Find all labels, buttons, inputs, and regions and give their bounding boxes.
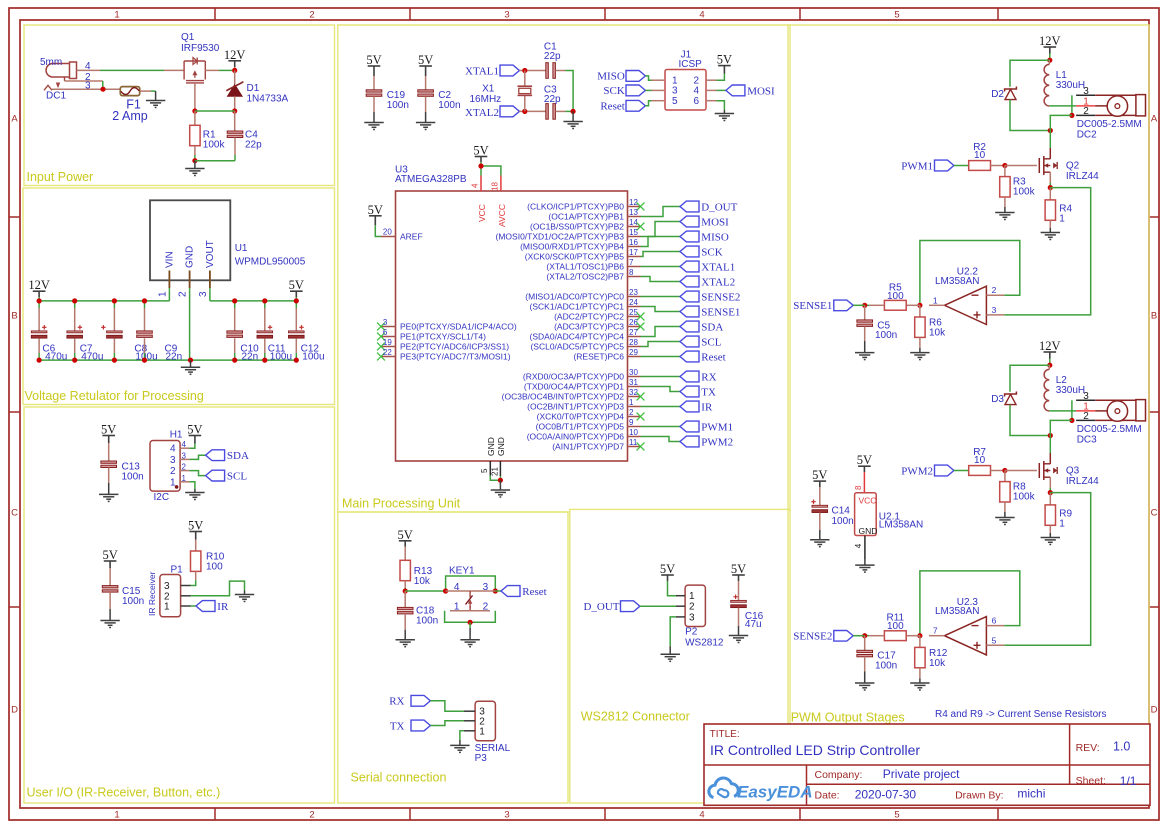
svg-text:PWM Output Stages: PWM Output Stages [791,710,905,724]
svg-text:TITLE:: TITLE: [710,729,740,740]
svg-text:SCL: SCL [227,471,247,483]
svg-text:Q1: Q1 [181,32,195,43]
svg-text:SCK: SCK [701,246,722,258]
svg-text:DC005-2.5MM: DC005-2.5MM [1077,424,1142,435]
svg-text:3: 3 [1083,391,1089,402]
svg-text:4: 4 [699,810,704,821]
svg-text:(ADC2/PTCY)PC2: (ADC2/PTCY)PC2 [554,312,624,322]
svg-text:15: 15 [629,228,638,237]
svg-text:2: 2 [483,602,489,613]
svg-text:2: 2 [309,10,314,21]
svg-text:4: 4 [85,61,91,72]
svg-text:1.0: 1.0 [1113,739,1130,753]
svg-text:RX: RX [389,696,404,708]
svg-text:REV:: REV: [1076,742,1100,754]
svg-text:ICSP: ICSP [679,59,703,70]
svg-text:Reset: Reset [701,351,725,363]
svg-text:22p: 22p [245,140,262,151]
svg-text:Serial connection: Serial connection [351,771,447,785]
svg-text:10: 10 [974,455,986,466]
svg-text:100: 100 [887,621,904,632]
svg-text:Drawn By:: Drawn By: [955,790,1003,802]
svg-text:(XCK0/T0/PTCXY)PD4: (XCK0/T0/PTCXY)PD4 [537,412,625,422]
svg-text:AREF: AREF [400,232,423,242]
svg-text:SCL: SCL [701,336,721,348]
svg-text:C: C [1151,508,1158,519]
svg-text:DC2: DC2 [1077,129,1097,140]
svg-text:XTAL1: XTAL1 [701,261,735,273]
svg-text:1: 1 [114,10,119,21]
svg-text:D: D [1151,705,1158,716]
svg-text:B: B [11,311,17,322]
svg-text:4: 4 [699,10,704,21]
svg-text:2: 2 [178,291,189,297]
svg-text:20: 20 [383,228,392,237]
svg-text:5V: 5V [660,562,675,576]
svg-text:10k: 10k [414,576,431,587]
svg-text:100u: 100u [270,352,292,363]
svg-text:10: 10 [974,150,986,161]
svg-text:IR Controlled LED Strip Contro: IR Controlled LED Strip Controller [710,742,920,758]
svg-text:2: 2 [309,810,314,821]
svg-text:2020-07-30: 2020-07-30 [855,787,917,801]
svg-text:12V: 12V [224,48,246,62]
svg-text:5V: 5V [473,144,488,158]
svg-text:1: 1 [629,398,634,407]
svg-text:2: 2 [629,408,634,417]
svg-text:VOUT: VOUT [205,240,216,268]
svg-text:(MISO0/RXD1/PTCXY)PB4: (MISO0/RXD1/PTCXY)PB4 [520,242,624,252]
svg-text:IRF9530: IRF9530 [181,43,220,54]
svg-text:Company:: Company: [815,769,863,781]
svg-text:(OC1B/SS0/PTCXY)PB2: (OC1B/SS0/PTCXY)PB2 [530,222,624,232]
svg-text:1: 1 [1059,213,1065,224]
svg-text:EasyEDA: EasyEDA [737,783,813,802]
svg-text:100u: 100u [302,352,324,363]
svg-text:SENSE2: SENSE2 [701,291,740,303]
svg-text:5: 5 [992,635,997,645]
svg-text:(OC3B/OC4B/INT0/PTCXY)PD2: (OC3B/OC4B/INT0/PTCXY)PD2 [502,392,625,402]
svg-text:Voltage Retulator for Processi: Voltage Retulator for Processing [25,389,204,403]
svg-text:(OC0B/T1/PTCXY)PD5: (OC0B/T1/PTCXY)PD5 [536,422,625,432]
svg-text:5mm: 5mm [40,57,62,68]
svg-text:12V: 12V [1039,339,1061,353]
svg-text:22n: 22n [242,352,259,363]
svg-text:2: 2 [1083,411,1089,422]
svg-text:5: 5 [480,468,489,473]
svg-text:(OC1A/PTCXY)PB1: (OC1A/PTCXY)PB1 [548,212,624,222]
svg-text:5V: 5V [398,528,413,542]
svg-text:P1: P1 [171,565,184,576]
svg-text:8: 8 [629,268,634,277]
svg-text:LM358AN: LM358AN [935,606,979,617]
svg-text:XTAL2: XTAL2 [701,276,735,288]
svg-text:KEY1: KEY1 [449,566,475,577]
svg-text:(OC0A/AIN0/PTCXY)PD6: (OC0A/AIN0/PTCXY)PD6 [527,432,625,442]
svg-text:B: B [1151,311,1157,322]
svg-text:23: 23 [629,288,638,297]
svg-text:Main Processing Unit: Main Processing Unit [342,497,461,511]
svg-text:Sheet:: Sheet: [1076,775,1106,787]
svg-text:(SDA0/ADC4/PTCY)PC4: (SDA0/ADC4/PTCY)PC4 [530,332,625,342]
svg-text:2: 2 [992,285,997,295]
svg-text:1: 1 [454,602,460,613]
svg-text:100: 100 [887,291,904,302]
svg-text:3: 3 [85,81,91,92]
svg-text:3: 3 [992,305,997,315]
svg-text:9: 9 [629,418,634,427]
svg-text:PWM2: PWM2 [701,436,733,448]
svg-text:Date:: Date: [815,789,840,801]
svg-text:100n: 100n [875,660,897,671]
svg-text:5V: 5V [187,423,202,437]
svg-text:TX: TX [390,720,405,732]
svg-text:4: 4 [170,444,176,455]
svg-text:4: 4 [470,183,479,188]
svg-text:DC3: DC3 [1077,434,1097,445]
svg-text:Private project: Private project [883,767,960,781]
svg-text:5V: 5V [102,548,117,562]
svg-text:16: 16 [629,238,638,247]
svg-text:(MISO1/ADC0/PTCY)PC0: (MISO1/ADC0/PTCY)PC0 [525,292,624,302]
svg-text:100n: 100n [875,330,897,341]
svg-text:5V: 5V [418,53,433,67]
svg-text:31: 31 [629,378,638,387]
svg-text:1: 1 [170,477,176,488]
svg-text:R4 and R9 -> Current Sense Res: R4 and R9 -> Current Sense Resistors [935,709,1106,720]
svg-text:3: 3 [504,810,509,821]
svg-text:2 Amp: 2 Amp [112,109,147,123]
svg-text:1: 1 [164,602,170,613]
svg-text:ATMEGA328PB: ATMEGA328PB [395,174,467,185]
svg-text:1/1: 1/1 [1120,774,1137,788]
svg-text:(SCL0/ADC5/PTCY)PC5: (SCL0/ADC5/PTCY)PC5 [530,342,624,352]
svg-text:5V: 5V [289,278,304,292]
svg-text:100k: 100k [1013,491,1036,502]
svg-text:P3: P3 [475,753,488,764]
svg-text:(ADC3/PTCY)PC3: (ADC3/PTCY)PC3 [554,322,624,332]
svg-text:MISO: MISO [597,71,625,83]
svg-text:5V: 5V [368,203,383,217]
svg-text:29: 29 [629,348,638,357]
svg-text:22: 22 [383,348,392,357]
svg-text:VCC: VCC [859,495,877,505]
svg-text:GND: GND [496,437,506,456]
svg-text:PE0(PTCXY/SDA1/ICP4/ACO): PE0(PTCXY/SDA1/ICP4/ACO) [400,322,517,332]
svg-text:1: 1 [933,295,938,305]
svg-text:1N4733A: 1N4733A [247,94,289,105]
svg-text:(MOSI0/TXD1/OC2A/PTCXY)PB3: (MOSI0/TXD1/OC2A/PTCXY)PB3 [496,232,625,242]
svg-text:100k: 100k [203,140,226,151]
svg-text:LM358AN: LM358AN [935,276,979,287]
svg-text:WPMDL950005: WPMDL950005 [235,257,306,268]
svg-text:SENSE1: SENSE1 [793,300,832,312]
svg-text:VIN: VIN [164,251,175,268]
svg-text:GND: GND [486,437,496,456]
svg-text:IRLZ44: IRLZ44 [1066,476,1099,487]
svg-text:13: 13 [629,208,638,217]
svg-text:5V: 5V [857,453,872,467]
svg-text:3: 3 [1083,86,1089,97]
svg-text:MOSI: MOSI [747,85,775,97]
svg-text:4: 4 [854,543,863,548]
svg-text:1: 1 [182,474,187,483]
svg-text:1: 1 [479,726,485,737]
svg-text:SENSE1: SENSE1 [701,306,740,318]
svg-text:AVCC: AVCC [497,204,507,227]
svg-text:Reset: Reset [522,586,546,598]
svg-text:VCC: VCC [477,204,487,222]
svg-text:5V: 5V [101,423,116,437]
svg-text:3: 3 [504,10,509,21]
svg-text:PWM2: PWM2 [901,465,933,477]
svg-text:2: 2 [689,602,695,613]
svg-text:3: 3 [383,318,388,327]
svg-text:100n: 100n [438,100,460,111]
svg-text:17: 17 [629,248,638,257]
svg-text:DC1: DC1 [46,91,66,102]
svg-text:D_OUT: D_OUT [583,601,619,613]
svg-text:(SCK1/ADC1/PTCY)PC1: (SCK1/ADC1/PTCY)PC1 [530,302,625,312]
svg-text:3: 3 [483,582,489,593]
svg-text:D_OUT: D_OUT [701,201,737,213]
svg-text:19: 19 [383,338,392,347]
svg-text:PWM1: PWM1 [901,160,933,172]
svg-text:C: C [11,508,18,519]
svg-text:1: 1 [689,591,695,602]
svg-text:22n: 22n [166,352,183,363]
svg-text:D: D [11,705,18,716]
svg-text:6: 6 [992,616,997,626]
svg-text:7: 7 [629,258,634,267]
svg-text:3: 3 [198,291,209,297]
svg-text:47u: 47u [745,619,762,630]
svg-text:WS2812 Connector: WS2812 Connector [581,710,690,724]
svg-text:3: 3 [182,451,187,460]
svg-text:(RXD0/OC3A/PTCXY)PD0: (RXD0/OC3A/PTCXY)PD0 [523,372,624,382]
svg-text:SDA: SDA [227,450,249,462]
svg-text:IRLZ44: IRLZ44 [1066,171,1099,182]
svg-text:PE3(PTCY/ADC7/T3/MOSI1): PE3(PTCY/ADC7/T3/MOSI1) [400,352,511,362]
svg-text:MISO: MISO [701,231,729,243]
svg-text:6: 6 [694,96,700,107]
svg-text:24: 24 [629,298,638,307]
svg-text:PE1(PTCXY/SCL1/T4): PE1(PTCXY/SCL1/T4) [400,332,486,342]
svg-text:5V: 5V [731,562,746,576]
svg-text:MOSI: MOSI [701,216,729,228]
svg-text:5: 5 [672,96,678,107]
svg-text:1: 1 [114,810,119,821]
svg-text:10k: 10k [929,658,946,669]
svg-text:100k: 100k [1013,186,1036,197]
svg-text:C14: C14 [832,505,851,516]
svg-text:LM358AN: LM358AN [879,520,923,531]
svg-text:12V: 12V [28,278,50,292]
svg-text:WS2812: WS2812 [685,637,724,648]
svg-text:(OC2B/INT1/PTCXY)PD3: (OC2B/INT1/PTCXY)PD3 [527,402,624,412]
svg-text:IR: IR [217,601,229,613]
svg-text:D3: D3 [991,394,1004,405]
svg-text:TX: TX [701,386,716,398]
svg-text:GND: GND [185,246,196,268]
svg-text:XTAL1: XTAL1 [465,66,499,78]
svg-text:2: 2 [170,466,176,477]
svg-text:100n: 100n [122,472,144,483]
svg-text:100n: 100n [122,596,144,607]
svg-text:I2C: I2C [154,492,170,503]
svg-text:3: 3 [689,612,695,623]
svg-text:Reset: Reset [600,101,624,113]
svg-text:(XCK0/SCK0/PTCXY)PB5: (XCK0/SCK0/PTCXY)PB5 [525,252,624,262]
svg-text:IR Receiver: IR Receiver [147,571,157,616]
svg-text:18: 18 [490,182,499,191]
svg-text:5: 5 [894,810,899,821]
svg-text:(CLKO/ICP1/PTCXY)PB0: (CLKO/ICP1/PTCXY)PB0 [527,202,624,212]
svg-text:10: 10 [629,428,638,437]
svg-text:5V: 5V [366,53,381,67]
svg-text:User I/O (IR-Receiver, Button,: User I/O (IR-Receiver, Button, etc.) [27,786,221,800]
svg-text:(XTAL2/TOSC2)PB7: (XTAL2/TOSC2)PB7 [546,272,624,282]
svg-text:(XTAL1/TOSC1)PB6: (XTAL1/TOSC1)PB6 [546,262,624,272]
svg-text:100n: 100n [832,516,854,527]
svg-text:5V: 5V [812,468,827,482]
svg-text:22p: 22p [544,51,561,62]
svg-text:RX: RX [701,371,716,383]
svg-text:330uH: 330uH [1056,385,1085,396]
svg-text:SCK: SCK [603,85,624,97]
svg-text:2: 2 [182,463,187,472]
svg-text:100: 100 [206,562,223,573]
svg-text:4: 4 [454,582,460,593]
svg-text:10k: 10k [929,328,946,339]
svg-text:(RESET)PC6: (RESET)PC6 [573,352,624,362]
svg-text:16MHz: 16MHz [470,94,502,105]
svg-text:27: 27 [629,328,638,337]
svg-text:100n: 100n [387,100,409,111]
svg-text:PWM1: PWM1 [701,421,733,433]
svg-text:1: 1 [1059,518,1065,529]
svg-text:D2: D2 [991,89,1004,100]
svg-text:8: 8 [854,485,863,490]
svg-text:GND: GND [859,526,878,536]
svg-text:A: A [11,114,18,125]
svg-text:Input Power: Input Power [27,170,94,184]
svg-text:100n: 100n [416,616,438,627]
svg-text:P2: P2 [685,627,698,638]
svg-text:30: 30 [629,368,638,377]
svg-text:12V: 12V [1039,34,1061,48]
svg-text:U1: U1 [235,243,248,254]
svg-text:5V: 5V [717,53,732,67]
svg-text:22p: 22p [544,94,561,105]
svg-text:1: 1 [157,291,168,297]
svg-text:5V: 5V [188,519,203,533]
svg-text:michi: michi [1017,787,1045,801]
svg-text:6: 6 [383,328,388,337]
svg-text:5: 5 [894,10,899,21]
svg-text:4: 4 [182,440,187,449]
svg-text:XTAL2: XTAL2 [465,107,499,119]
svg-text:7: 7 [933,626,938,636]
svg-text:3: 3 [170,455,176,466]
svg-text:470u: 470u [81,352,103,363]
svg-text:28: 28 [629,338,638,347]
svg-text:470u: 470u [45,352,67,363]
svg-text:IR: IR [701,401,713,413]
svg-text:DC005-2.5MM: DC005-2.5MM [1077,119,1142,130]
svg-text:SENSE2: SENSE2 [793,631,832,643]
svg-text:H1: H1 [170,430,183,441]
svg-text:D1: D1 [247,83,260,94]
svg-text:PE2(PTCY/ADC6/ICP3/SS1): PE2(PTCY/ADC6/ICP3/SS1) [400,342,509,352]
svg-text:SDA: SDA [701,321,723,333]
svg-text:11: 11 [629,438,638,447]
svg-text:(TXD0/OC4A/PTCXY)PD1: (TXD0/OC4A/PTCXY)PD1 [524,382,624,392]
svg-text:2: 2 [1083,106,1089,117]
svg-text:21: 21 [490,467,499,476]
svg-text:A: A [1151,114,1158,125]
svg-text:330uH: 330uH [1056,80,1085,91]
svg-text:(AIN1/PTCXY)PD7: (AIN1/PTCXY)PD7 [552,442,624,452]
